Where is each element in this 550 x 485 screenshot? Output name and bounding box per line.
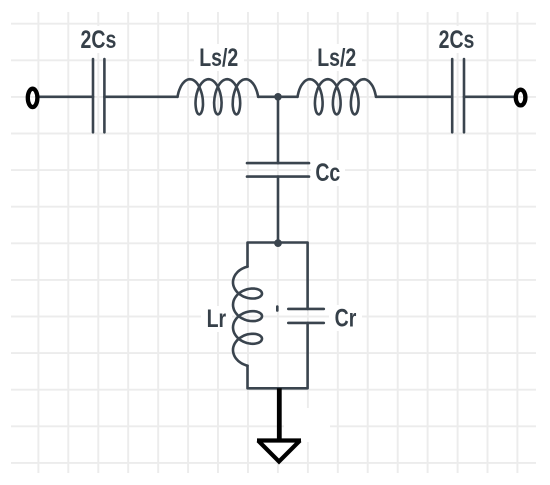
wire 2Cs left to Ls/2 left: [104, 96, 177, 99]
svg-text:2Cs: 2Cs: [439, 25, 475, 53]
input terminal left: [28, 89, 38, 107]
wire 2Cs right to output: [464, 96, 514, 99]
inductor Lr vertical coil: [233, 267, 262, 366]
tank bottom rail wire: [248, 323, 308, 388]
capacitor Cc top plate: [247, 162, 309, 165]
wire between inductors: [258, 96, 297, 99]
svg-text:Cc: Cc: [315, 159, 340, 187]
inductor Ls/2 right coil: [298, 79, 377, 114]
tank top rail wire: [248, 243, 308, 309]
svg-text:2Cs: 2Cs: [81, 25, 117, 53]
capacitor Cr bottom plate: [288, 322, 324, 325]
output terminal right: [516, 90, 526, 106]
capacitor Cr top plate: [288, 308, 324, 311]
capacitor 2Cs (left) plate 2: [103, 59, 106, 132]
capacitor 2Cs (right) plate 1: [451, 59, 454, 132]
svg-text:Cr: Cr: [335, 304, 357, 332]
ground triangle: [257, 441, 301, 462]
capacitor 2Cs (right) plate 2: [463, 59, 466, 132]
wire node to Cc: [277, 97, 280, 163]
ground stem: [277, 388, 282, 439]
svg-text:Ls/2: Ls/2: [199, 44, 238, 72]
svg-text:Ls/2: Ls/2: [317, 44, 356, 72]
node B junction dot: [274, 239, 282, 247]
wire Ls/2 to 2Cs right: [376, 96, 452, 99]
wire Cc to tank node: [277, 177, 280, 243]
capacitor Cc bottom plate: [247, 175, 309, 178]
stray tick mark: [276, 307, 279, 311]
wire input to 2Cs left: [39, 96, 93, 99]
inductor Ls/2 left coil: [178, 79, 259, 114]
svg-text:Lr: Lr: [207, 305, 227, 333]
capacitor 2Cs (left) plate 1: [92, 59, 95, 132]
node A junction dot: [274, 93, 282, 101]
